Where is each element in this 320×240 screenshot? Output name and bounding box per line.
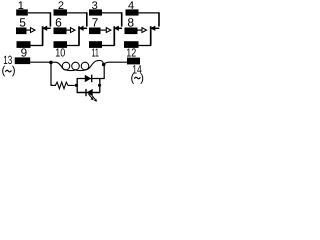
svg-text:7: 7 (92, 15, 99, 29)
svg-text:): ) (12, 65, 16, 77)
wire NC descender pole 1 (49, 12, 51, 26)
wire diode pair up to node B (103, 65, 105, 80)
wire NC descender pole 4 (158, 12, 160, 26)
NC contact arrow pole 4 (155, 27, 160, 29)
node D junction dot (right of diode pair) (98, 84, 101, 87)
NC contact arrow pole 1 (46, 27, 50, 29)
wire terminal 2 to NC contact pole 2 (67, 12, 87, 14)
svg-text:12: 12 (126, 46, 136, 59)
wire terminal 4 to NC contact pole 4 (139, 12, 160, 14)
LED D2 (indicator LED, bottom branch, anti-parallel) (85, 89, 87, 96)
svg-text:6: 6 (55, 15, 62, 29)
svg-text:): ) (140, 72, 144, 84)
wire bottom rail of diode pair (77, 92, 100, 94)
movable contact blade pole 1 (42, 26, 44, 45)
terminal 14 (coil terminal) (127, 58, 140, 65)
wire terminal 1 to NC contact pole 1 (28, 12, 51, 14)
node A junction dot (49, 61, 53, 65)
movable contact blade pole 2 (78, 26, 80, 45)
terminal 5 (NO fixed contact terminal) (16, 28, 27, 35)
svg-text:5: 5 (19, 15, 26, 29)
svg-text:(: ( (1, 65, 5, 77)
node C junction dot (left of diode pair) (75, 84, 78, 87)
NO contact arrow pole 2 (67, 29, 71, 31)
wire left riser of diode pair (76, 79, 78, 93)
wire terminal 13 to node A (30, 61, 51, 63)
resistor R1 (indicator series resistor) (55, 82, 74, 89)
wire node B to terminal 14 (104, 62, 127, 64)
terminal 12 (COM terminal) (124, 41, 139, 48)
node B junction dot (102, 63, 106, 67)
wire terminal 3 to NC contact pole 3 (102, 12, 122, 14)
movable contact blade pole 4 (150, 26, 152, 45)
wire right riser of diode pair (99, 79, 101, 93)
terminal 4 (NC fixed contact terminal) (126, 9, 139, 15)
wire NC descender pole 2 (86, 12, 88, 26)
NO contact arrow pole 1 (27, 29, 31, 31)
svg-text:8: 8 (127, 15, 134, 29)
terminal 10 (COM terminal) (54, 41, 68, 48)
wire NC descender pole 3 (121, 12, 123, 26)
terminal 1 (NC fixed contact terminal) (16, 9, 28, 15)
wire blade to COM terminal pole 4 (139, 45, 152, 47)
NC contact arrow pole 3 (118, 27, 122, 29)
terminal 7 (NO fixed contact terminal) (89, 28, 101, 35)
NO contact arrow pole 4 (138, 29, 143, 31)
LED emission arrows (89, 94, 93, 98)
coil L1 (51, 60, 104, 70)
diode D1 (protection diode, top branch) (85, 75, 91, 83)
terminal 3 (NC fixed contact terminal) (89, 9, 102, 15)
terminal 2 (NC fixed contact terminal) (54, 9, 68, 15)
wire blade to COM terminal pole 2 (67, 45, 80, 47)
terminal 8 (NO fixed contact terminal) (125, 28, 138, 35)
terminal 6 (NO fixed contact terminal) (54, 28, 67, 35)
NO contact arrow pole 3 (101, 29, 107, 31)
NC contact arrow pole 2 (83, 27, 87, 29)
svg-text:11: 11 (91, 46, 99, 59)
svg-text:10: 10 (55, 46, 65, 59)
wire top rail of diode pair (77, 78, 105, 80)
terminal 9 (COM terminal) (17, 41, 31, 48)
wire node A down to indicator branch (51, 64, 56, 86)
wire blade to COM terminal pole 1 (31, 45, 44, 47)
movable contact blade pole 3 (113, 26, 115, 45)
terminal 13 (coil terminal) (15, 57, 31, 64)
wire blade to COM terminal pole 3 (102, 45, 115, 47)
terminal 11 (COM terminal) (89, 41, 102, 48)
